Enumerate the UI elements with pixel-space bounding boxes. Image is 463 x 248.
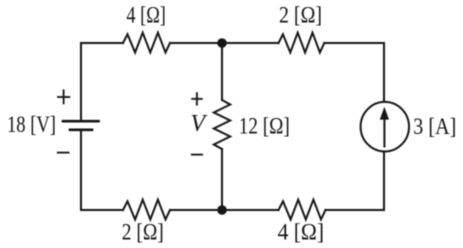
svg-text:2 [Ω]: 2 [Ω] xyxy=(279,3,322,28)
current source I1 3[A] circle xyxy=(361,102,409,152)
wire bottom-left (corner to R3) xyxy=(81,209,123,211)
node B (bottom junction dot) xyxy=(217,205,227,215)
wire top-right (R2 to right corner) xyxy=(324,42,384,44)
wire right branch lower (current source to bottom corner) xyxy=(383,152,385,210)
node A (top junction dot) xyxy=(217,38,227,48)
svg-text:2 [Ω]: 2 [Ω] xyxy=(122,219,164,244)
svg-text:4 [Ω]: 4 [Ω] xyxy=(278,220,325,245)
resistor R5 12[ohm] vertical zigzag xyxy=(214,100,230,149)
current source I1 arrow shaft xyxy=(383,117,385,147)
wire top-left (corner to R1) xyxy=(81,42,123,44)
resistor R3 2[ohm] bottom-left zigzag xyxy=(123,200,170,220)
svg-text:18 [V]: 18 [V] xyxy=(7,112,56,137)
resistor R4 4[ohm] bottom-right zigzag xyxy=(279,200,326,220)
wire bottom-right (R4 to right corner) xyxy=(326,209,385,211)
wire right branch upper (corner to current source) xyxy=(383,43,385,102)
battery 18[V] short plate (-) xyxy=(70,129,92,132)
resistor R1 4[ohm] top-left zigzag xyxy=(123,33,170,53)
wire middle branch lower (R5 to node B) xyxy=(221,149,223,210)
current source I1 arrowhead xyxy=(380,107,389,120)
svg-text:12 [Ω]: 12 [Ω] xyxy=(239,114,290,139)
V minus sign xyxy=(191,154,203,156)
wire top-middle (R1 to R2 through node A) xyxy=(170,42,279,44)
svg-text:4 [Ω]: 4 [Ω] xyxy=(126,2,165,27)
V plus sign xyxy=(191,92,203,105)
svg-text:3 [A]: 3 [A] xyxy=(413,114,456,139)
resistor R2 2[ohm] top-right zigzag xyxy=(279,33,325,53)
wire left branch upper (corner down to battery) xyxy=(80,43,82,120)
svg-text:V: V xyxy=(191,111,208,137)
battery plus sign xyxy=(57,89,70,104)
wire bottom-middle (R3 to R4 through node B) xyxy=(170,209,279,211)
battery minus sign xyxy=(57,152,70,154)
battery 18[V] long plate (+) xyxy=(63,120,99,123)
wire middle branch upper (node A to R5) xyxy=(221,43,223,100)
wire left branch lower (battery to bottom corner) xyxy=(80,131,82,210)
